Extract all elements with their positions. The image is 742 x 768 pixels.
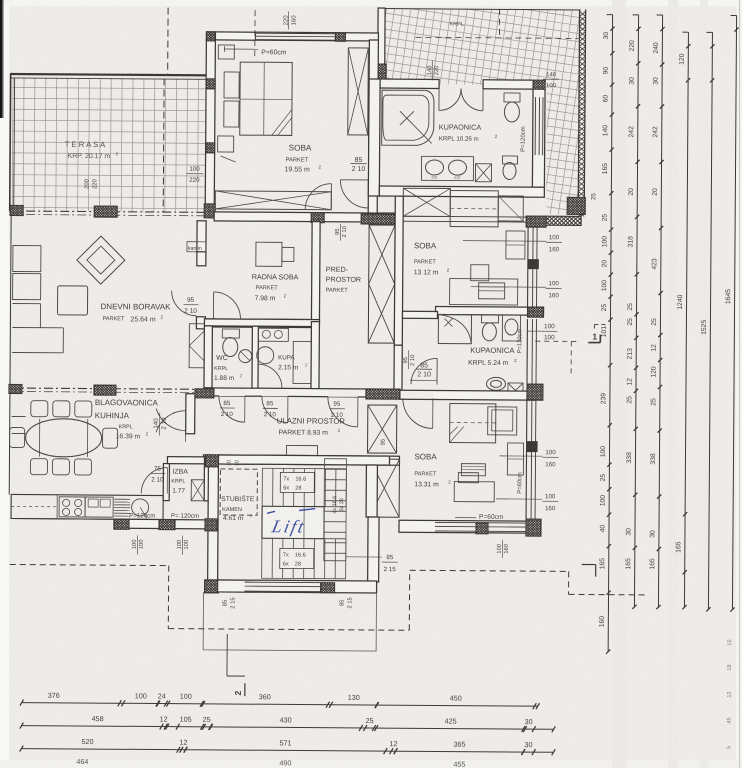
kamin label box	[187, 242, 206, 252]
stubiste top wall	[218, 455, 389, 465]
izba X box	[191, 480, 204, 501]
dining table oval	[25, 419, 101, 458]
entry door arcs	[156, 409, 186, 431]
kupa round sink	[257, 347, 274, 364]
kupaonica1 top wall right segment	[483, 80, 533, 89]
stubiste left wall	[208, 465, 219, 581]
kupaonica1 top wall left segment	[380, 79, 439, 88]
wall right of closet	[394, 196, 403, 345]
window dim 100/160 lower	[471, 286, 546, 289]
kupa shower tall	[293, 341, 312, 383]
terrace bottom dash-dot sill line	[9, 211, 208, 212]
terrace left edge double line	[9, 73, 12, 211]
bed fold lines	[272, 109, 292, 135]
soba1 left wall pillar mid1	[196, 79, 227, 89]
soba1 left wall pillar mid2	[196, 143, 227, 153]
nightstand top	[218, 45, 234, 59]
hall door opening 3	[328, 390, 358, 397]
bathtub cross mark	[400, 111, 414, 125]
soba2 item on desk	[479, 283, 505, 299]
section line 2	[226, 634, 228, 676]
izba top wall	[167, 457, 206, 464]
kupaonica1 double door arcs	[439, 88, 461, 110]
left house edge line	[9, 214, 11, 494]
dashed dim extension above window	[254, 10, 256, 59]
radna-pred bottom wall	[204, 319, 319, 328]
kupa door arc	[258, 364, 282, 388]
window pillar top right	[511, 384, 561, 400]
dresser bottom strip with X	[215, 191, 331, 210]
soba3 desk	[454, 482, 494, 502]
terrace TERASA tile grid	[11, 77, 208, 211]
hall top wall	[204, 388, 400, 397]
soba2 bed horizontal	[450, 191, 498, 227]
sofa left top	[13, 245, 41, 271]
soba2 chair	[471, 265, 489, 281]
soba1 right wall lower	[368, 180, 377, 215]
footprint below stairs thin outline	[203, 592, 376, 651]
square seat	[57, 286, 87, 315]
dimension line x=710	[708, 32, 712, 609]
sink kupaonica2	[502, 315, 520, 341]
soba3 nightstand	[507, 443, 523, 475]
wall between radna and pred-prostor	[311, 222, 320, 322]
wc toilet	[222, 329, 239, 338]
radna soba desk	[256, 242, 282, 266]
soba3 desk item	[461, 464, 485, 476]
page edge line right	[739, 0, 741, 768]
stairs label box upper	[280, 472, 314, 492]
dimension row y=751	[21, 749, 553, 753]
wc kupa top wall	[204, 319, 319, 327]
closet niche left of wc	[189, 324, 206, 368]
wc sink circle	[239, 350, 252, 363]
kupaonica2 top wall	[402, 311, 437, 318]
sofa L lines	[12, 303, 63, 352]
pillar blagovaonica boundary mid	[84, 385, 128, 395]
wardrobe right with X	[348, 48, 369, 135]
pillar at window right end	[327, 33, 356, 42]
bidet kupaonica1	[503, 156, 518, 164]
door2 arc	[262, 396, 288, 422]
nightstand bottom	[218, 136, 234, 152]
kupaonica2 right window wall	[526, 319, 528, 384]
terrace top edge double line	[10, 74, 210, 75]
dining chair right	[103, 428, 118, 448]
pillar main wall c	[515, 216, 557, 227]
soba1 door arc	[340, 180, 368, 208]
kamin wall segment	[197, 221, 206, 253]
X shaft 2	[369, 459, 399, 517]
entry wall left	[186, 394, 195, 434]
dnevni boravak diamond table	[77, 236, 125, 284]
dashed box around stubiste label	[220, 469, 257, 515]
dash-dot boundary blagovaonica	[10, 388, 196, 389]
sink oval 2	[448, 160, 466, 175]
wc toilet kupaonica2	[481, 315, 498, 323]
hatched pillar terrace bottom middle	[83, 206, 130, 217]
dining chairs top row	[31, 401, 48, 417]
soba1 right wall upper	[369, 40, 379, 148]
stubiste left pillar top	[193, 455, 231, 467]
soba2 desk	[450, 279, 518, 305]
hatched wall strip below roof terrace	[537, 216, 594, 225]
X box kupaonica2 bottom	[508, 383, 523, 398]
dimension line x=686	[684, 32, 688, 607]
stairs upper flight	[262, 468, 346, 507]
dim 100/100 right	[527, 330, 541, 332]
kupaonica2 door arc	[411, 358, 437, 384]
sink oval 1	[425, 160, 443, 175]
roof terrace top edge	[380, 9, 581, 10]
window dim 100/160 upper	[463, 240, 546, 243]
wall wc-kupa	[252, 326, 258, 388]
kitchen bottom wall	[114, 519, 206, 529]
window dim 100/160 lower soba3	[496, 498, 542, 500]
window strip right of main wall	[397, 215, 532, 218]
soba2 bottom wall	[435, 306, 543, 315]
kitchen window sill below	[11, 517, 114, 520]
dashed marker lines near kupaonica2	[535, 340, 580, 342]
dnevni door arc to hall	[171, 291, 196, 316]
pillar on stub wall	[360, 64, 404, 79]
radna soba door arc left	[213, 292, 240, 319]
stairs label box lower	[280, 548, 314, 568]
soba2 nightstand	[506, 231, 525, 259]
sink counter kupaonica1	[421, 156, 473, 180]
stubiste bottom wall with window	[218, 580, 377, 593]
dimension line x=660	[658, 15, 662, 607]
kupaonica2 left lobby wall	[394, 345, 402, 390]
soba3 right window wall	[525, 399, 528, 519]
soba3 door opening	[403, 391, 433, 398]
dining chairs bottom row	[30, 459, 47, 475]
washing machine X box	[475, 164, 491, 182]
bed soba1	[240, 62, 293, 135]
wall segment dnevni-wc	[196, 317, 205, 329]
soba3 chair	[458, 473, 478, 483]
soba2 right window wall	[527, 227, 530, 307]
soba3 bottom window	[435, 521, 526, 532]
soba3 bottom pillar right	[509, 519, 560, 536]
wall below kamin	[197, 252, 206, 266]
soba1 window top	[255, 33, 335, 41]
pillar main wall b	[351, 214, 408, 224]
wc room walls	[204, 326, 212, 388]
kitchen counter	[11, 494, 163, 519]
built-in closet X tall	[368, 225, 395, 343]
stubiste left pillar mid	[193, 519, 231, 531]
door arc soba1 bottom	[305, 184, 331, 210]
soba3 window mullion	[527, 441, 538, 452]
stairs center guide lines	[303, 507, 305, 539]
hatched block roof terrace bottom	[550, 197, 604, 214]
dash corner near 101	[594, 324, 606, 326]
dimension row y=728	[22, 726, 554, 730]
hall bottom wall	[203, 455, 399, 465]
pillow 2	[224, 101, 239, 127]
dashed roof outline left	[10, 564, 169, 565]
dishwasher hatch	[114, 499, 130, 516]
niche rect above stubiste	[286, 445, 317, 455]
stubiste left pillar bottom	[192, 580, 234, 593]
soba1 corner pillar bottom	[190, 204, 230, 218]
stubiste right wall	[366, 465, 377, 517]
izba left wall	[163, 464, 169, 501]
dimension line x=610	[608, 15, 612, 652]
soba2 pillow	[498, 196, 523, 221]
dining chair left	[10, 427, 25, 447]
sink double kitchen	[85, 497, 113, 517]
door3 arc	[328, 397, 358, 427]
kupa sink counter	[258, 328, 288, 341]
kupaonica1 right wall with window	[532, 89, 545, 187]
soba3 top wall	[400, 390, 535, 400]
wall stub up to roof terrace	[378, 8, 385, 79]
scanner streak bands	[612, 0, 626, 768]
hatched pillar terrace bottom left	[0, 205, 33, 215]
stove 4 burners	[59, 497, 85, 517]
shower kupaonica2	[438, 314, 471, 343]
small corner mark	[582, 563, 596, 565]
kupaonica1 corner pillar right	[522, 80, 556, 91]
sofa left bottom	[13, 273, 41, 299]
dimension line x=734	[732, 16, 736, 610]
bathtub corner	[382, 90, 434, 145]
roof terrace right hatched edge band	[578, 9, 579, 214]
soba1 top wall	[215, 32, 378, 41]
dashed lines on roof terrace	[415, 37, 578, 38]
soba2 window mullion block	[528, 259, 539, 269]
dimension row y=705	[22, 703, 538, 707]
wall right of kupa	[311, 322, 319, 390]
pillar main wall a	[301, 213, 334, 223]
soba2 wardrobe X box	[403, 188, 450, 216]
stairs lower flight	[262, 538, 346, 579]
window dim 100/160 upper soba3	[500, 455, 543, 457]
hall door opening 2	[262, 389, 288, 396]
pillow 1	[224, 72, 239, 98]
kupaonica1 bottom wall	[379, 186, 544, 197]
hall door opening 1	[219, 389, 245, 396]
pillar blagovaonica boundary left	[0, 384, 32, 393]
X shaft right of hall	[368, 405, 397, 453]
round sink kitchen	[132, 499, 149, 516]
soba3 bottom pillar left	[465, 523, 499, 534]
soba3 pillow	[488, 407, 517, 435]
izba right wall	[204, 457, 213, 501]
kupaonica1 left wall (shared)	[368, 79, 380, 196]
soba1 left wall	[205, 32, 215, 214]
scanner black edge top-left	[0, 0, 3, 118]
soba3 bottom wall	[399, 520, 529, 533]
lift box	[262, 506, 324, 538]
LIFT blue handwriting	[269, 516, 307, 536]
hall top wall pillar right	[356, 389, 410, 399]
dimension line x=636	[634, 15, 638, 607]
soba3 door arc	[403, 398, 433, 428]
wc toilet kupaonica1	[504, 93, 520, 102]
soba1 left wall pillar top	[197, 32, 224, 41]
stairs right flight vertical	[324, 459, 347, 561]
soba3 bed	[450, 404, 496, 443]
hall top wall pillar left	[186, 389, 224, 398]
sink oval bottom kupaonica2	[486, 377, 505, 390]
vertical dashed property line top	[167, 8, 169, 75]
izba door arc	[141, 467, 167, 493]
main wall below soba1	[214, 212, 397, 222]
door1 arc	[219, 396, 245, 422]
